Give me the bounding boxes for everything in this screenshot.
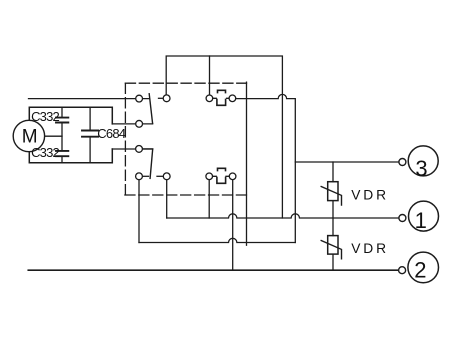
enclosure right edge wire (246, 82, 248, 245)
svg-text:3: 3 (415, 156, 427, 181)
switch S1 right throw stub (159, 97, 167, 99)
dashed enclosure bottom edge (125, 194, 247, 196)
switch S1 lower contact circle (136, 120, 143, 127)
dashed enclosure (switch unit) top edge (125, 82, 246, 84)
svg-text:C684: C684 (97, 126, 125, 141)
switch S2 right throw stub (157, 175, 167, 177)
capacitor C684 lead (89, 107, 91, 163)
net 3 return horizontal with hop (139, 238, 295, 242)
motor M (13, 120, 44, 151)
terminal 3 ring (408, 146, 438, 176)
net 1 horizontal to terminal 1 with hops (167, 214, 399, 218)
varistor VDR2 leads (332, 218, 334, 270)
wire: rail drop to contact K1 (209, 56, 211, 98)
switch S2 right throw contact circle (163, 173, 170, 180)
wire: K2 right contact down to net 2 (232, 176, 234, 270)
contact K2 upper bracket (218, 168, 226, 170)
wire: motor top lead to switch S1 upper-left contact (29, 98, 149, 100)
motor terminal box (29, 107, 112, 163)
varistor VDR2 body (328, 236, 338, 255)
switch S2 lower-left contact circle (136, 173, 143, 180)
svg-text:C332: C332 (31, 145, 59, 160)
varistor VDR1 leads (332, 162, 334, 218)
top rail wire (166, 56, 282, 218)
wire: K2 left contact down to net 1 (208, 176, 210, 218)
wire: box lower exit to S2 upper contact (112, 148, 152, 150)
contact K2 left terminal circle (206, 173, 213, 180)
contact K1 stubs (209, 97, 232, 99)
switch S2 lower-left stub (139, 175, 149, 177)
contact K2 stubs (209, 175, 232, 177)
switch S1 right throw contact circle (163, 95, 170, 102)
capacitor C332 (upper) lead (61, 107, 63, 163)
svg-text:VDR: VDR (351, 187, 389, 202)
terminal 2 connection circle (399, 267, 406, 274)
contact K1 left terminal circle (206, 95, 213, 102)
svg-text:1: 1 (415, 208, 427, 233)
switch S2 pivot contact circle (136, 146, 143, 153)
switch S2 pivot stub and arm (139, 149, 153, 179)
net 2 bottom wire to terminal 2 (28, 269, 398, 271)
terminal 1 connection circle (399, 215, 406, 222)
switch S1 moving arm (149, 94, 152, 124)
wire: motor to junction between C332 capacitors (29, 135, 62, 137)
varistor VDR1 body (328, 182, 338, 201)
svg-text:VDR: VDR (351, 241, 389, 256)
wire: S2 lower-left contact down to net 3 return (138, 176, 140, 242)
terminal 3 connection circle (399, 159, 406, 166)
capacitor C332 (lower) plates (56, 151, 68, 156)
contact K1 lower bracket (217, 99, 226, 105)
contact K1 right terminal circle (229, 95, 236, 102)
terminal 1 ring (409, 201, 439, 231)
contact K1 upper bracket (218, 90, 226, 92)
capacitor C332 (upper) plates (56, 118, 68, 123)
wire: K1 right contact to net 3 with hop over rail drop (232, 94, 295, 242)
wire: net 3 horizontal to terminal 3 (295, 161, 399, 163)
wire: S2 throw down to net 1 (166, 176, 168, 218)
contact K2 lower bracket (217, 177, 226, 183)
svg-text:2: 2 (414, 257, 426, 282)
terminal 2 ring (408, 252, 439, 283)
switch S1 upper-left contact circle (136, 95, 143, 102)
wire: box upper exit to S1 lower contact (112, 123, 152, 125)
varistor VDR2 diagonal (321, 241, 341, 259)
varistor VDR1 diagonal (321, 187, 341, 206)
contact K2 right terminal circle (229, 173, 236, 180)
svg-text:C332: C332 (31, 109, 59, 124)
capacitor C684 plates (82, 131, 98, 137)
dashed enclosure left edge (124, 83, 126, 195)
